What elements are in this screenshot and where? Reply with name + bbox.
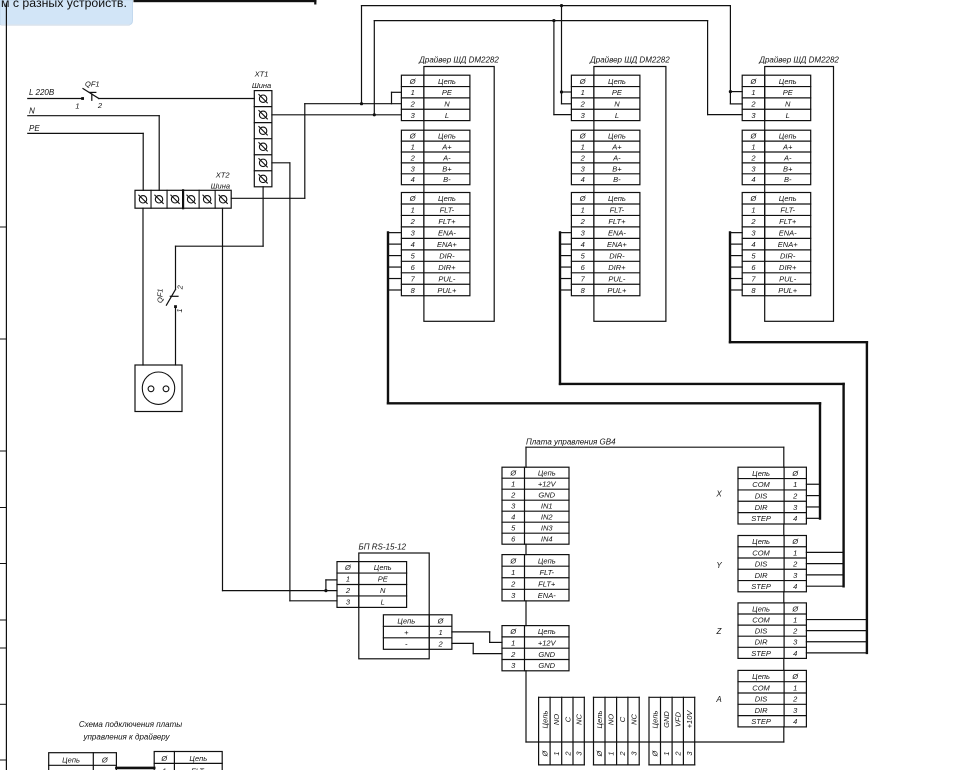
svg-text:DIR+: DIR+ [438,263,456,272]
svg-text:Ø: Ø [750,194,758,203]
svg-text:PUL+: PUL+ [437,286,457,295]
svg-text:Цепь: Цепь [397,616,415,625]
svg-text:Драйвер ШД DM2282: Драйвер ШД DM2282 [758,56,839,65]
svg-text:XT2: XT2 [215,171,231,180]
svg-text:N: N [614,99,620,108]
svg-text:Цепь: Цепь [62,755,80,764]
svg-text:NO: NO [552,714,561,725]
svg-text:1: 1 [511,638,515,647]
svg-text:2: 2 [580,153,586,162]
svg-text:PE: PE [612,88,623,97]
svg-text:2: 2 [345,586,351,595]
svg-text:B-: B- [443,175,451,184]
svg-text:1: 1 [552,752,561,756]
svg-text:+12V: +12V [538,480,557,489]
svg-text:Ø: Ø [791,672,799,681]
svg-text:A: A [715,695,721,704]
svg-text:1: 1 [411,88,415,97]
svg-text:4: 4 [581,175,585,184]
svg-text:IN1: IN1 [541,502,553,511]
svg-text:Ø: Ø [579,77,587,86]
svg-text:L: L [445,111,449,120]
svg-text:1: 1 [581,88,585,97]
svg-text:4: 4 [411,175,415,184]
svg-text:DIR+: DIR+ [779,263,797,272]
svg-text:м с разных устройств.: м с разных устройств. [1,0,127,10]
svg-text:Драйвер ШД DM2282: Драйвер ШД DM2282 [589,56,670,65]
svg-text:ENA+: ENA+ [607,240,627,249]
svg-text:L: L [381,598,385,607]
svg-text:PUL+: PUL+ [778,286,798,295]
svg-text:DIR: DIR [755,503,769,512]
svg-text:B+: B+ [612,164,622,173]
svg-text:DIR: DIR [755,571,769,580]
svg-text:COM: COM [752,480,770,489]
svg-text:2: 2 [750,99,756,108]
svg-text:Ø: Ø [750,77,758,86]
svg-text:1: 1 [751,88,755,97]
svg-text:A-: A- [783,153,792,162]
svg-text:Цепь: Цепь [779,77,797,86]
svg-text:Цепь: Цепь [438,194,456,203]
svg-text:2: 2 [97,101,103,110]
svg-text:2: 2 [750,153,756,162]
svg-text:Ø: Ø [579,132,587,141]
svg-text:STEP: STEP [751,514,771,523]
svg-text:Цепь: Цепь [595,711,604,729]
svg-text:Цепь: Цепь [189,754,207,763]
svg-text:Y: Y [716,561,722,570]
svg-text:2: 2 [175,284,184,290]
svg-text:IN2: IN2 [541,513,554,522]
svg-text:1: 1 [793,683,797,692]
svg-text:Ø: Ø [595,750,604,758]
svg-text:DIR: DIR [755,706,769,715]
svg-text:STEP: STEP [751,582,771,591]
svg-text:STEP: STEP [751,649,771,658]
svg-text:+: + [404,628,409,637]
svg-text:Ø: Ø [437,616,445,625]
svg-text:2: 2 [792,695,798,704]
svg-text:GND: GND [538,491,555,500]
svg-text:управления к драйверу: управления к драйверу [83,733,171,742]
svg-text:Ø: Ø [160,754,168,763]
svg-text:PUL-: PUL- [438,274,456,283]
svg-text:A+: A+ [611,142,622,151]
svg-text:2: 2 [410,99,416,108]
svg-text:4: 4 [793,514,797,523]
svg-text:Ø: Ø [791,604,799,613]
svg-text:Цепь: Цепь [779,194,797,203]
svg-text:PE: PE [442,88,453,97]
svg-text:FLT+: FLT+ [538,579,556,588]
svg-text:FLT-: FLT- [191,766,206,770]
svg-text:Цепь: Цепь [752,537,770,546]
svg-text:1: 1 [511,568,515,577]
svg-text:PUL-: PUL- [608,274,626,283]
svg-text:PE: PE [29,124,40,133]
svg-text:DIS: DIS [755,560,768,569]
svg-text:QF1: QF1 [85,80,100,89]
svg-text:N: N [380,586,386,595]
svg-text:DIR+: DIR+ [608,263,626,272]
svg-text:IN3: IN3 [541,524,554,533]
svg-text:4: 4 [793,717,797,726]
svg-text:2: 2 [410,217,416,226]
svg-text:Ø: Ø [579,194,587,203]
svg-text:Цепь: Цепь [608,132,626,141]
svg-text:Цепь: Цепь [438,132,456,141]
svg-text:Цепь: Цепь [752,469,770,478]
svg-text:4: 4 [751,175,755,184]
svg-text:4: 4 [793,582,797,591]
svg-text:DIR-: DIR- [609,251,625,260]
svg-text:+10V: +10V [685,710,694,729]
svg-text:ENA-: ENA- [438,229,456,238]
svg-text:IN4: IN4 [541,535,553,544]
svg-text:NC: NC [575,714,584,725]
svg-text:1: 1 [751,206,755,215]
svg-text:C: C [563,716,572,722]
svg-text:L: L [786,111,790,120]
svg-text:Ø: Ø [409,194,417,203]
svg-text:Драйвер ШД DM2282: Драйвер ШД DM2282 [418,56,499,65]
svg-text:FLT-: FLT- [440,206,455,215]
svg-text:4: 4 [581,240,585,249]
svg-text:DIR-: DIR- [780,251,796,260]
svg-text:1: 1 [162,766,166,770]
svg-text:FLT+: FLT+ [779,217,797,226]
svg-text:FLT-: FLT- [610,206,625,215]
svg-text:Ø: Ø [344,563,352,572]
svg-text:PUL-: PUL- [779,274,797,283]
svg-text:STEP: STEP [751,717,771,726]
svg-text:N: N [785,99,791,108]
svg-text:ENA-: ENA- [608,229,626,238]
svg-text:Ø: Ø [791,469,799,478]
svg-text:Ø: Ø [409,132,417,141]
svg-text:1: 1 [438,628,442,637]
svg-text:Цепь: Цепь [438,77,456,86]
svg-text:N: N [444,99,450,108]
svg-text:B-: B- [613,175,621,184]
svg-text:Цепь: Цепь [779,132,797,141]
svg-text:A+: A+ [782,142,793,151]
svg-text:NO: NO [607,714,616,725]
svg-text:COM: COM [752,548,770,557]
svg-text:A-: A- [612,153,621,162]
svg-text:PE: PE [378,575,389,584]
svg-text:B+: B+ [783,164,793,173]
svg-text:2: 2 [792,627,798,636]
svg-text:2: 2 [580,99,586,108]
svg-text:ENA-: ENA- [538,591,556,600]
svg-text:DIS: DIS [755,695,768,704]
svg-text:Шина: Шина [211,182,230,191]
svg-text:L: L [615,111,619,120]
svg-text:COM: COM [752,683,770,692]
svg-text:DIS: DIS [755,492,768,501]
svg-text:PE: PE [783,88,794,97]
svg-text:2: 2 [674,751,683,757]
svg-text:1: 1 [75,102,79,111]
svg-text:4: 4 [511,513,515,522]
svg-text:1: 1 [793,615,797,624]
svg-text:ENA-: ENA- [779,229,797,238]
svg-text:2: 2 [792,492,798,501]
svg-text:L 220В: L 220В [29,88,55,97]
svg-text:QF1: QF1 [156,288,165,303]
svg-text:A-: A- [442,153,451,162]
svg-text:VFD: VFD [674,711,683,727]
svg-text:2: 2 [580,217,586,226]
svg-text:Цепь: Цепь [608,77,626,86]
svg-text:4: 4 [793,649,797,658]
svg-text:2: 2 [618,751,627,757]
svg-text:1: 1 [175,308,184,312]
svg-text:+12V: +12V [538,638,557,647]
svg-text:4: 4 [411,240,415,249]
svg-text:Ø: Ø [509,469,517,478]
svg-text:1: 1 [607,752,616,756]
svg-text:2: 2 [510,491,516,500]
svg-text:Ø: Ø [101,755,109,764]
svg-text:Ø: Ø [791,537,799,546]
svg-text:DIR-: DIR- [439,251,455,260]
svg-text:1: 1 [581,206,585,215]
svg-text:C: C [618,716,627,722]
svg-text:Ø: Ø [509,627,517,636]
svg-text:1: 1 [411,142,415,151]
svg-text:NC: NC [629,714,638,725]
svg-text:Схема подключения платы: Схема подключения платы [79,720,182,729]
svg-text:Цепь: Цепь [540,711,549,729]
svg-text:X: X [715,490,722,499]
svg-text:Ø: Ø [509,556,517,565]
svg-text:2: 2 [410,153,416,162]
svg-text:Цепь: Цепь [752,604,770,613]
svg-text:FLT-: FLT- [539,568,554,577]
svg-text:ENA+: ENA+ [778,240,798,249]
svg-text:4: 4 [751,240,755,249]
svg-text:Ø: Ø [540,750,549,758]
svg-text:Ø: Ø [750,132,758,141]
svg-text:ENA+: ENA+ [437,240,457,249]
svg-text:2: 2 [563,751,572,757]
svg-text:GND: GND [538,650,555,659]
svg-text:GND: GND [538,661,555,670]
svg-text:DIR: DIR [755,638,769,647]
svg-text:2: 2 [437,639,443,648]
svg-text:Цепь: Цепь [608,194,626,203]
svg-text:Цепь: Цепь [538,469,556,478]
svg-text:FLT-: FLT- [780,206,795,215]
svg-text:2: 2 [510,650,516,659]
svg-text:1: 1 [411,206,415,215]
svg-text:GND: GND [662,711,671,728]
svg-text:1: 1 [346,575,350,584]
svg-text:N: N [29,107,35,116]
svg-text:1: 1 [793,548,797,557]
svg-text:B-: B- [784,175,792,184]
svg-text:1: 1 [581,142,585,151]
svg-text:Цепь: Цепь [538,556,556,565]
svg-text:FLT+: FLT+ [608,217,626,226]
svg-text:2: 2 [792,560,798,569]
svg-text:БП RS-15-12: БП RS-15-12 [359,543,407,552]
svg-text:Цепь: Цепь [651,711,660,729]
svg-text:2: 2 [510,579,516,588]
svg-text:Ø: Ø [409,77,417,86]
svg-text:Шина: Шина [252,81,271,90]
svg-text:Цепь: Цепь [374,563,392,572]
svg-text:PUL+: PUL+ [607,286,627,295]
svg-text:1: 1 [751,142,755,151]
svg-text:Цепь: Цепь [538,627,556,636]
svg-text:1: 1 [793,480,797,489]
svg-text:2: 2 [750,217,756,226]
svg-text:Плата управления GB4: Плата управления GB4 [526,438,616,447]
svg-text:A+: A+ [441,142,452,151]
svg-text:1: 1 [511,480,515,489]
svg-text:COM: COM [752,615,770,624]
svg-text:FLT+: FLT+ [438,217,456,226]
svg-text:Цепь: Цепь [752,672,770,681]
svg-text:Ø: Ø [651,750,660,758]
svg-text:DIS: DIS [755,627,768,636]
svg-text:B+: B+ [442,164,452,173]
svg-text:XT1: XT1 [254,70,269,79]
svg-text:1: 1 [662,752,671,756]
